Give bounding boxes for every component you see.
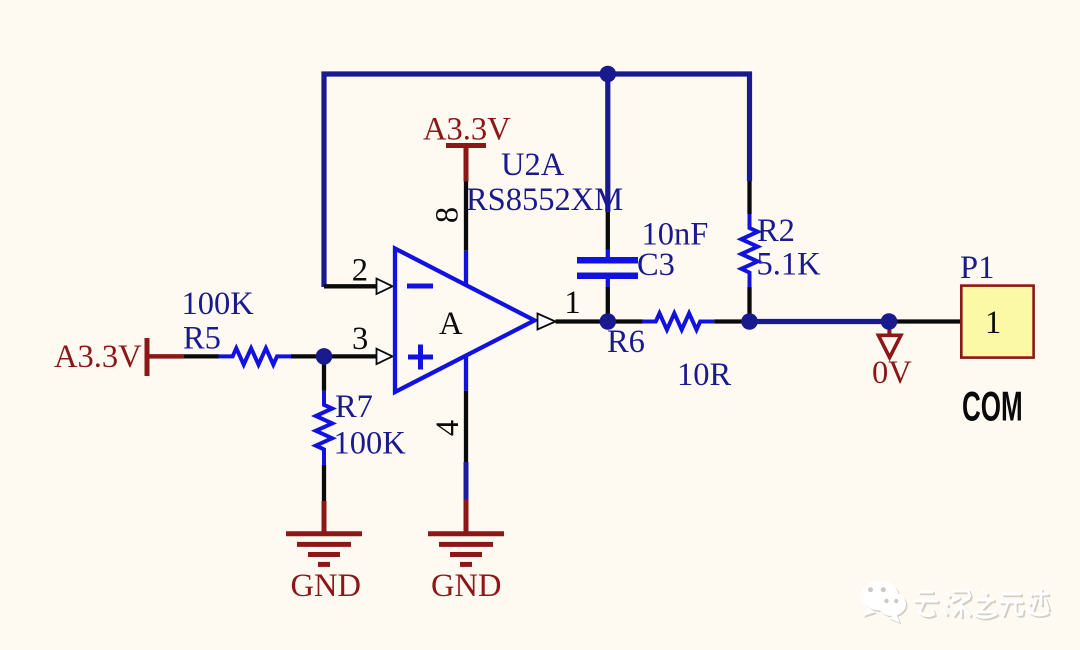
svg-text:4: 4 [430,420,466,436]
svg-text:A3.3V: A3.3V [423,112,511,148]
pin U2A.8 black [464,182,468,251]
svg-text:100K: 100K [334,426,407,462]
power port A3.3V top bar [446,146,486,182]
pin 2 arrowhead [377,279,393,294]
power port 0V symbol [878,326,901,358]
watermark text 云深之无迹 [915,590,1050,619]
power port A3.3V left bar [145,338,150,376]
op-amp plus sign [408,345,433,370]
svg-text:10R: 10R [677,357,732,393]
resistor R6 body [642,313,714,329]
svg-text:5.1K: 5.1K [757,247,822,283]
pin R2.1 black [747,181,751,214]
op-amp U2A triangle [395,249,535,393]
svg-text:GND: GND [291,568,361,604]
svg-text:0V: 0V [872,355,912,391]
wire pin4 to GND [464,462,469,500]
node junction output/R2 [741,313,758,330]
svg-text:1: 1 [564,285,580,321]
svg-text:R7: R7 [335,389,373,425]
pin C3.1 black [606,212,610,250]
resistor R2 body [741,214,757,287]
ground GND (under R7) [286,501,362,564]
connector P1 box [961,286,1033,358]
svg-text:2: 2 [352,253,368,289]
svg-text:1: 1 [985,305,1001,341]
pin 3 arrowhead [377,349,393,364]
pin R2.2 black [747,287,751,322]
wire feedback net (pin2 to top to R2/C3) [324,74,750,287]
pin U2A.2 black wire [324,284,379,288]
svg-text:A3.3V: A3.3V [54,339,142,375]
pin R7.1 black [322,360,326,391]
resistor R5 body [219,348,291,364]
node junction 0V [881,313,898,330]
pin U2A.4 blue stub [464,355,468,391]
svg-text:GND: GND [431,568,501,604]
svg-text:R5: R5 [183,321,221,357]
pin U2A.3 black wire [324,354,379,358]
svg-text:P1: P1 [960,250,994,286]
pin U2A.4 black [464,391,468,462]
pin C3.2 black [606,287,610,322]
pin R5.1 black [184,354,219,358]
pin U2A.8 blue stub [464,251,468,286]
resistor R7 body [316,391,332,465]
wire output net R2 junction to 0V junction [750,319,890,324]
svg-text:8: 8 [430,207,466,223]
pin R6.2 black [714,319,749,323]
wire C3 top branch [605,74,610,212]
svg-text:R2: R2 [757,213,795,249]
svg-text:RS8552XM: RS8552XM [466,182,623,218]
svg-text:COM: COM [962,383,1023,430]
svg-text:R6: R6 [607,324,645,360]
pin U2A.1 output arrowhead [538,314,556,330]
svg-text:C3: C3 [637,247,675,283]
svg-text:3: 3 [352,321,368,357]
watermark wechat logo [861,581,908,625]
capacitor C3 body [577,249,638,287]
pin R7.2 black [322,465,326,502]
op-amp minus sign [407,284,433,289]
node junction top (C3 tap) [600,66,617,83]
svg-text:A: A [439,306,463,342]
pin U2A.1 black wire [556,319,644,323]
pin R5.2 black [291,354,326,358]
svg-text:U2A: U2A [501,147,565,183]
ground GND (under pin 4) [428,500,504,565]
svg-text:100K: 100K [182,286,255,322]
node junction output/C3 [600,313,617,330]
pin P1.1 black wire [889,319,962,323]
node junction pin3 / R7 [316,348,333,365]
wire A3.3V power to R5 (dark red) [147,354,184,359]
